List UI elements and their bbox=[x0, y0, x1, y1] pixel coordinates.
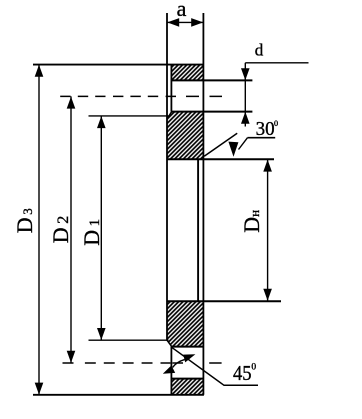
d top arrow (down) bbox=[241, 68, 250, 80]
flange top edge + D3 top extension line bbox=[33, 64, 204, 66]
svg-text:d: d bbox=[255, 41, 264, 60]
svg-text:45: 45 bbox=[233, 361, 252, 385]
lower bolt hole top edge bbox=[171, 346, 203, 348]
hatched block A (above upper bolt hole) bbox=[171, 65, 203, 80]
hatched block C (above lower bolt hole, chamfered corner) bbox=[167, 302, 203, 346]
D1 top arrow bbox=[97, 116, 106, 128]
inset face line lower band bbox=[170, 346, 172, 395]
30 deg arrow bbox=[228, 142, 238, 157]
svg-text:a: a bbox=[177, 0, 187, 21]
d bottom arrow (up) bbox=[241, 112, 250, 124]
hatched block D (below lower bolt hole) bbox=[171, 379, 203, 394]
dashed centerline upper bolt hole / D2 top bbox=[60, 95, 222, 97]
bore top edge + Dn top extension bbox=[167, 158, 274, 160]
upper bolt hole top edge + d extension bbox=[171, 79, 252, 81]
svg-text:0: 0 bbox=[274, 119, 278, 128]
right face line / a extension bbox=[202, 13, 204, 395]
dashed centerline lower bolt hole / D2 bottom bbox=[63, 362, 222, 364]
d vertical line bbox=[244, 63, 246, 127]
hole chamfer upper bbox=[167, 112, 172, 119]
30 deg shelf bbox=[248, 137, 276, 139]
dimension d shelf bbox=[245, 62, 308, 64]
45 deg arrow lower left bbox=[163, 365, 175, 373]
svg-text:0: 0 bbox=[251, 363, 256, 373]
D2 top arrow bbox=[67, 97, 76, 109]
hole chamfer lower bbox=[167, 340, 172, 346]
D2 bottom arrow bbox=[67, 351, 76, 363]
flange bottom edge + D3 bottom extension line bbox=[33, 394, 204, 396]
inset face line upper band bbox=[170, 65, 172, 112]
dimension D1 line bbox=[100, 116, 102, 340]
30 deg chamfer leader diagonal bbox=[204, 133, 237, 156]
Dn top arrow bbox=[263, 160, 272, 172]
D1 bottom arrow bbox=[97, 328, 106, 340]
30 deg leader to shelf bbox=[239, 138, 248, 150]
D1 top extension line bbox=[89, 115, 169, 117]
45 deg arc bbox=[173, 360, 185, 368]
D1 bottom extension line bbox=[89, 339, 169, 341]
bore bottom edge + Dn bottom extension bbox=[167, 300, 281, 302]
dimension a right arrow bbox=[191, 18, 203, 27]
Dn bottom arrow bbox=[263, 289, 272, 301]
left face line / a extension bbox=[166, 13, 168, 341]
dimension Dn line bbox=[267, 159, 269, 301]
dimension D3 line bbox=[38, 65, 40, 395]
D3 top arrow bbox=[35, 65, 44, 77]
dimension a line bbox=[167, 21, 203, 23]
45 deg chamfer leader diagonal + shelf bbox=[172, 347, 259, 385]
dimension a left arrow bbox=[167, 18, 179, 27]
svg-text:30: 30 bbox=[256, 118, 275, 140]
bore inner vertical line bbox=[197, 159, 199, 301]
D3 bottom arrow bbox=[35, 383, 44, 395]
lower bolt hole bottom edge bbox=[171, 378, 203, 380]
dimension D2 line bbox=[70, 96, 72, 363]
45 deg arrow upper right bbox=[183, 354, 195, 362]
hatched block B (below upper bolt hole, chamfered corner) bbox=[167, 112, 203, 158]
upper bolt hole bottom edge + d extension bbox=[171, 111, 252, 113]
